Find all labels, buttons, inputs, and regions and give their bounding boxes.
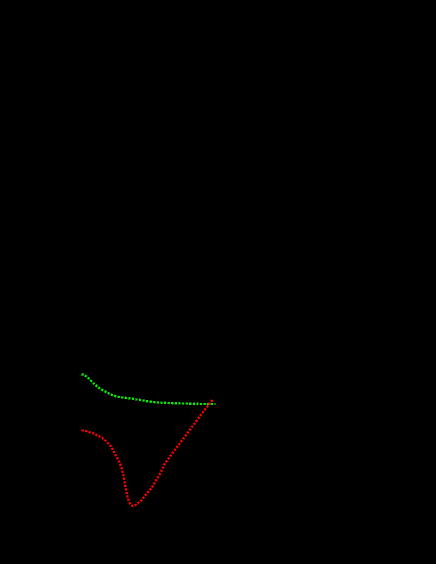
red dotted curve (lower trace with dip) — [82, 399, 213, 506]
green dotted curve (upper trace) — [82, 374, 216, 404]
